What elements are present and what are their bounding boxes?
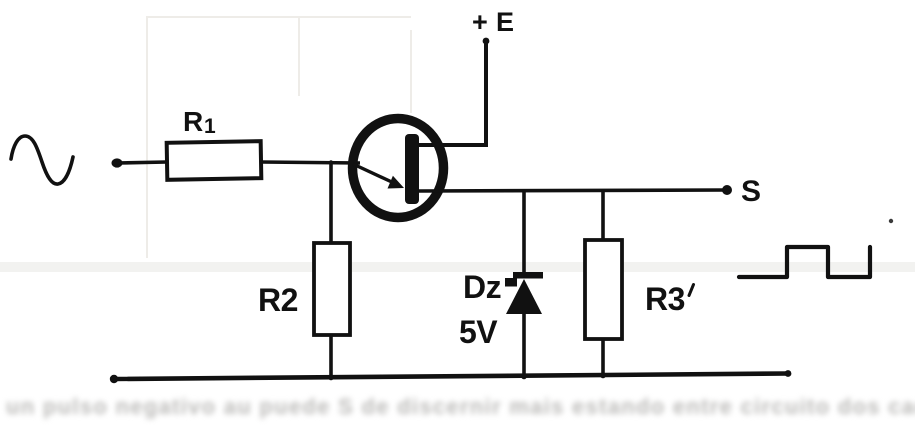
wire S line down to Dz [522,191,526,276]
resistor R1 [167,141,262,180]
wire input to R1 [117,162,167,163]
speck top right [889,219,893,223]
svg-text:R2: R2 [258,282,298,318]
wire R3' to ground rail [601,339,605,375]
node: Dz rail junction [521,374,527,380]
node at +E wire top [483,38,490,45]
label R3' [645,281,694,317]
wire S line down to R3' [601,190,605,240]
label + E supply [472,7,514,37]
transistor Q1 circle [353,119,444,218]
scan artifact ghost lines [147,16,411,258]
node: R2 rail junction [328,375,334,381]
zener diode Dz [505,191,543,378]
svg-text:1: 1 [204,115,216,138]
scan artifact light band [0,262,915,272]
cathode bar with zener bend [513,272,543,279]
wire Dz to ground rail [522,310,526,378]
node: rail right end [785,370,792,377]
svg-text:R3: R3 [645,281,685,317]
svg-text:R: R [183,106,203,137]
wire R2 to ground rail [329,335,333,379]
svg-text:S: S [741,175,761,208]
svg-text:+: + [472,7,488,37]
ground rail [114,374,788,380]
label R1 [183,106,216,138]
svg-text:E: E [496,7,514,37]
resistor R2 [314,162,350,379]
node: output terminal dot S [722,185,732,195]
node: R3 rail junction [600,373,606,379]
transistor Q1 emitter arrow [353,164,404,189]
node: base junction [329,160,333,164]
square wave output symbol [739,247,870,277]
transistor Q1 base bar [405,134,419,204]
resistor R3' [585,190,622,375]
sine wave input symbol [11,136,73,184]
svg-text:un pulso negativo au puede S: un pulso negativo au puede S de discerni… [6,394,915,419]
anode triangle [506,279,542,314]
node: rail left terminal [110,375,118,383]
svg-text:5V: 5V [459,314,498,350]
scan artifact bleed-through text [6,394,915,419]
wire base node down to R2 [329,162,333,243]
svg-text:Dz: Dz [463,269,501,305]
wire collector to +E [417,41,486,145]
node: input terminal dot [112,158,123,167]
wire emitter to output S [419,190,727,191]
wire R1 to base [261,162,360,163]
